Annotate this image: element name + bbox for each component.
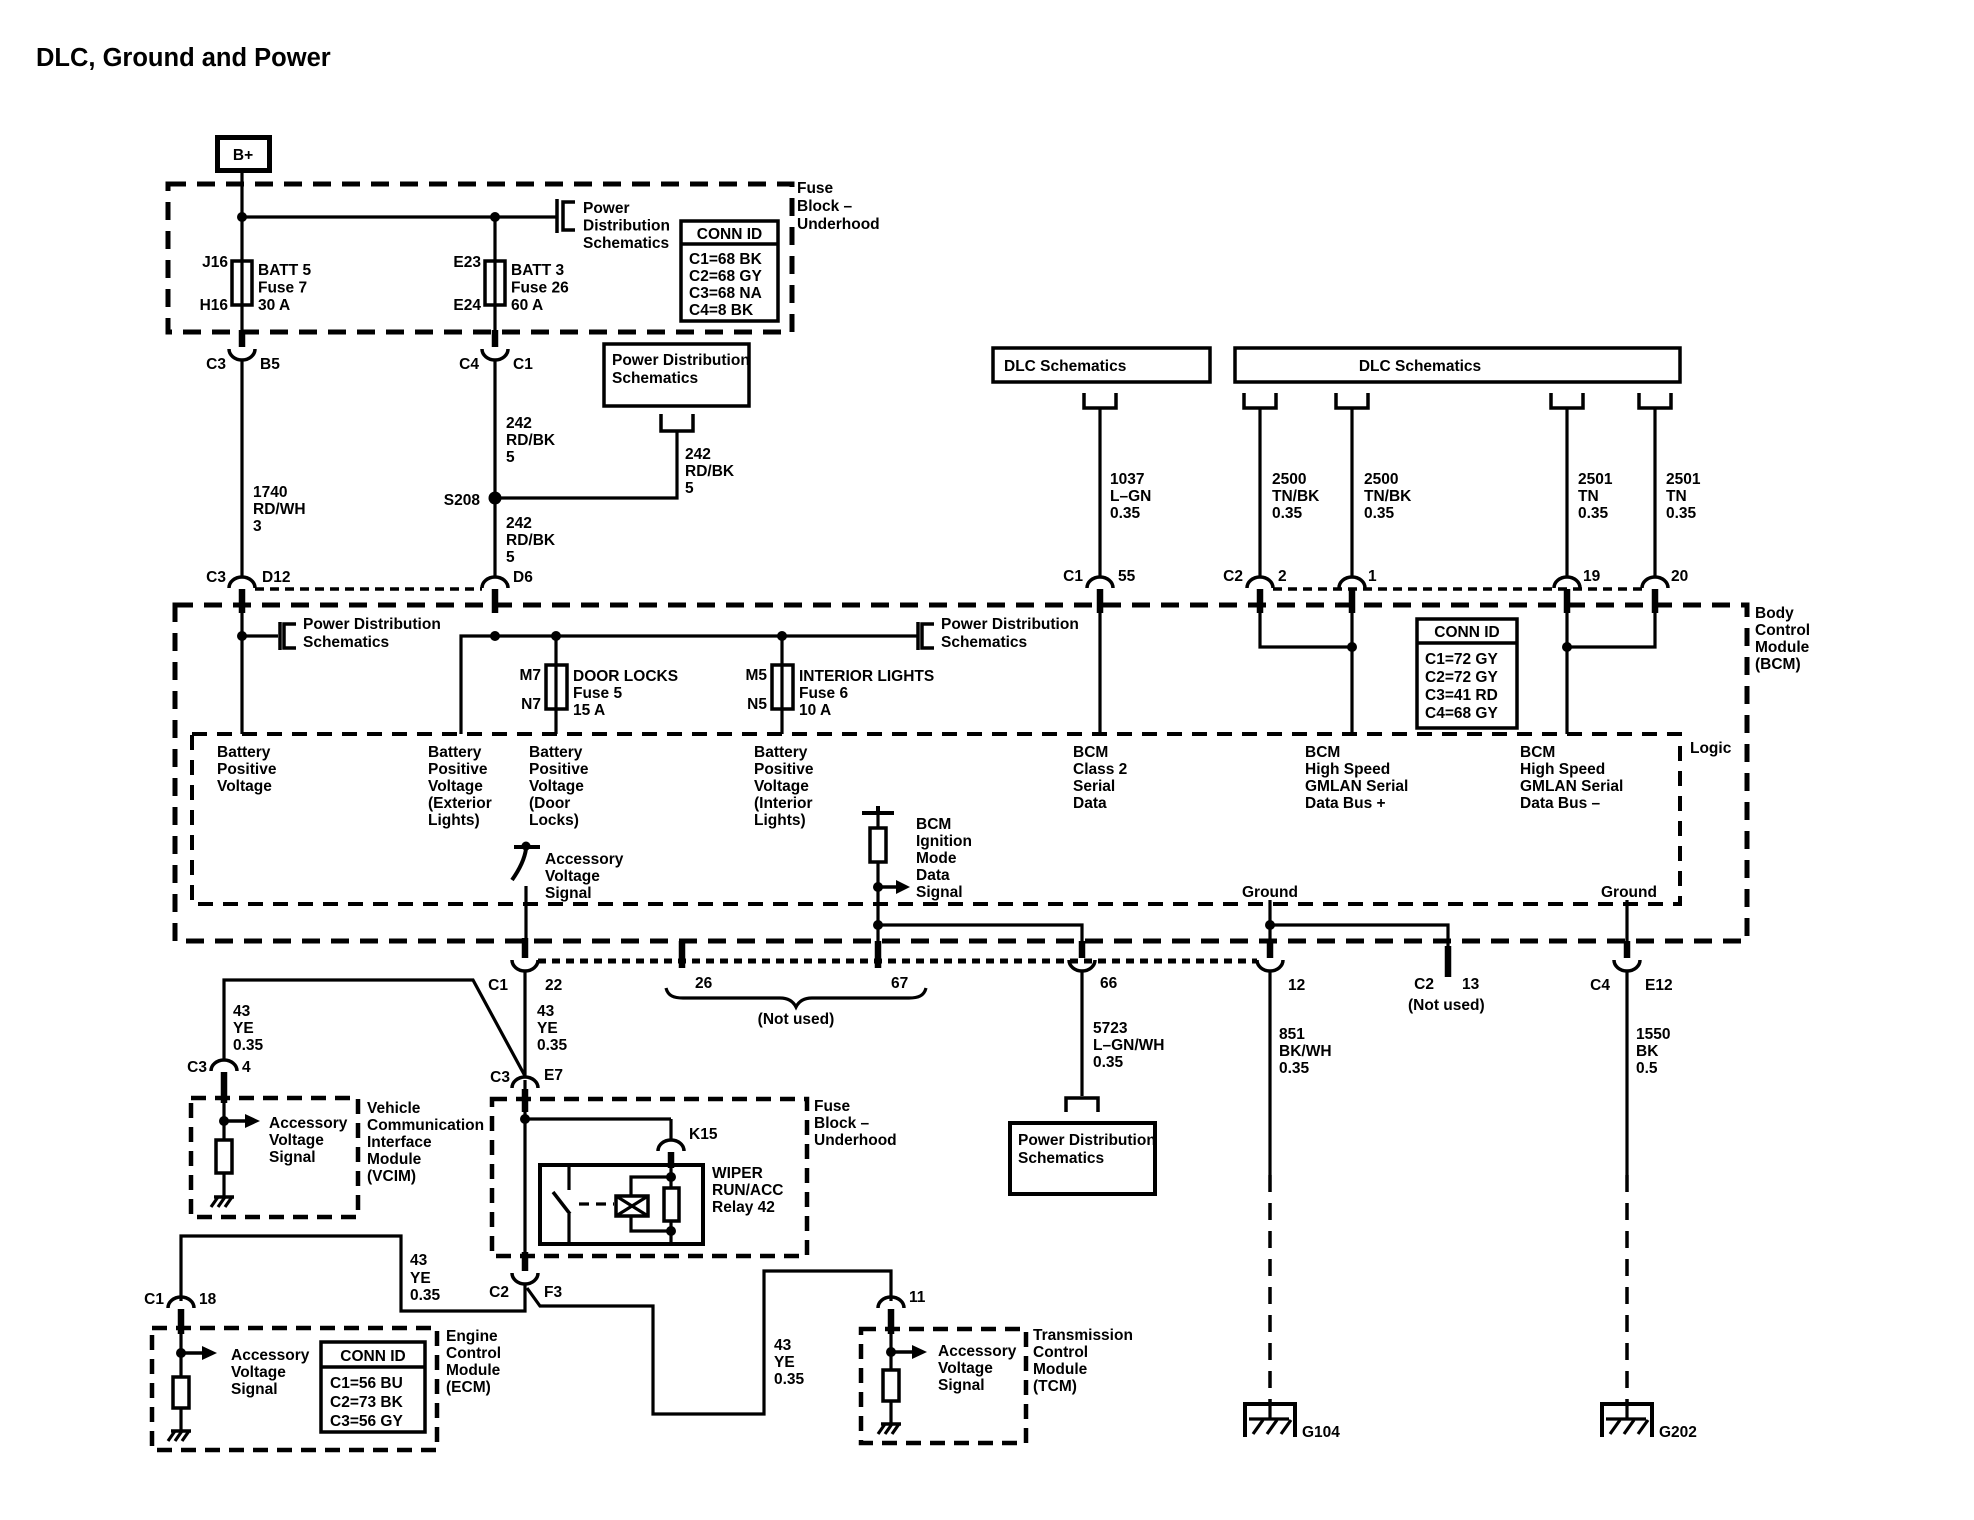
- svg-text:G104: G104: [1302, 1424, 1340, 1441]
- connector pin 20: [1642, 568, 1688, 613]
- wire F3 to ECM: [181, 1236, 525, 1311]
- wire label 2501 TN 0.35 a: [1578, 471, 1613, 522]
- svg-text:66: 66: [1100, 975, 1118, 992]
- wire TCM internal: [889, 1334, 892, 1370]
- node junction VCIM arrow: [219, 1116, 229, 1126]
- svg-text:C1: C1: [1063, 568, 1083, 585]
- wire 43 YE pin 22 to E7: [523, 971, 526, 1076]
- label accessory voltage signal (TCM): [938, 1343, 1017, 1394]
- svg-text:K15: K15: [689, 1126, 718, 1143]
- svg-text:0.35: 0.35: [1364, 505, 1395, 522]
- svg-text:(ECM): (ECM): [446, 1379, 491, 1396]
- bracket to power distribution (bottom): [1066, 1098, 1098, 1112]
- svg-text:Positive: Positive: [529, 761, 589, 778]
- svg-text:GMLAN Serial: GMLAN Serial: [1305, 778, 1408, 795]
- svg-text:242: 242: [506, 415, 532, 432]
- svg-text:C1: C1: [144, 1291, 164, 1308]
- svg-text:Schematics: Schematics: [612, 370, 698, 387]
- wire class 2 serial into logic: [1098, 613, 1101, 734]
- svg-text:43: 43: [774, 1337, 792, 1354]
- wire resistor to pin 67: [876, 862, 879, 944]
- svg-text:L–GN/WH: L–GN/WH: [1093, 1037, 1164, 1054]
- svg-text:Engine: Engine: [446, 1328, 498, 1345]
- wire 43 YE branch to VCIM: [224, 980, 525, 1076]
- svg-text:55: 55: [1118, 568, 1136, 585]
- svg-text:242: 242: [506, 515, 532, 532]
- battery positive terminal B+: [218, 138, 270, 171]
- svg-text:5: 5: [506, 549, 515, 566]
- svg-text:Positive: Positive: [754, 761, 814, 778]
- fuse block underhood label (relay): [814, 1098, 897, 1149]
- fuse BATT 5 Fuse 7: [232, 261, 252, 305]
- svg-text:C1=56 BU: C1=56 BU: [330, 1375, 403, 1392]
- wire 242 RD/BK upper: [493, 360, 496, 577]
- svg-text:Data: Data: [916, 867, 950, 884]
- svg-text:DLC, Ground and Power: DLC, Ground and Power: [36, 44, 331, 72]
- connector pin 1: [1339, 568, 1377, 613]
- svg-text:Control: Control: [1755, 622, 1810, 639]
- wire GMLAN + into logic: [1350, 613, 1353, 734]
- svg-text:Voltage: Voltage: [428, 778, 483, 795]
- connector C3 pin 4: [187, 1059, 251, 1103]
- wire ECM internal: [179, 1334, 182, 1377]
- wire label 43 YE 0.35 (TCM): [774, 1337, 805, 1388]
- connector pin 19: [1554, 568, 1601, 613]
- svg-text:22: 22: [545, 977, 562, 994]
- svg-text:C4: C4: [459, 356, 479, 373]
- bracket below power distribution box: [661, 414, 693, 431]
- svg-text:M5: M5: [745, 667, 767, 684]
- svg-text:INTERIOR LIGHTS: INTERIOR LIGHTS: [799, 668, 934, 685]
- body control module BCM box: [175, 605, 1747, 941]
- svg-text:C3: C3: [187, 1059, 207, 1076]
- brace not used pins 26-67: [666, 988, 926, 1007]
- svg-text:Power Distribution: Power Distribution: [941, 616, 1079, 633]
- svg-text:Voltage: Voltage: [269, 1132, 324, 1149]
- ECM label: [446, 1328, 501, 1396]
- svg-text:C3=68 NA: C3=68 NA: [689, 285, 762, 302]
- svg-text:1550: 1550: [1636, 1026, 1670, 1043]
- svg-text:(Exterior: (Exterior: [428, 795, 492, 812]
- wire to pin 66: [878, 925, 1082, 950]
- svg-text:RD/BK: RD/BK: [506, 432, 556, 449]
- svg-text:RD/WH: RD/WH: [253, 501, 306, 518]
- svg-text:Ground: Ground: [1242, 884, 1298, 901]
- wire 1550 BK dashed: [1625, 1175, 1629, 1403]
- svg-text:Battery: Battery: [754, 744, 808, 761]
- svg-text:Mode: Mode: [916, 850, 957, 867]
- svg-text:(Not used): (Not used): [758, 1011, 835, 1028]
- svg-text:Signal: Signal: [269, 1149, 316, 1166]
- wire 1037 L-GN: [1098, 408, 1101, 577]
- node junction ECM arrow: [176, 1348, 186, 1358]
- bracket under DLC box wire 2501 a: [1551, 393, 1583, 408]
- svg-text:0.35: 0.35: [233, 1037, 264, 1054]
- node junction K15 branch: [520, 1114, 530, 1124]
- svg-text:DLC Schematics: DLC Schematics: [1359, 358, 1481, 375]
- svg-text:(TCM): (TCM): [1033, 1378, 1077, 1395]
- DLC schematics box (right): [1235, 348, 1680, 382]
- connector interface line bottom row: [538, 959, 1257, 964]
- wire 1740 RD/WH: [240, 360, 243, 577]
- svg-text:BCM: BCM: [1073, 744, 1108, 761]
- svg-text:C3: C3: [206, 356, 226, 373]
- svg-text:19: 19: [1583, 568, 1601, 585]
- svg-text:Data Bus –: Data Bus –: [1520, 795, 1600, 812]
- svg-text:C4: C4: [1590, 977, 1610, 994]
- wire GMLAN - into logic: [1565, 613, 1568, 734]
- fuse INTERIOR LIGHTS Fuse 6: [772, 665, 793, 709]
- svg-text:Fuse 5: Fuse 5: [573, 685, 622, 702]
- wire battery positive into logic: [240, 613, 243, 734]
- svg-text:B5: B5: [260, 356, 280, 373]
- svg-text:N7: N7: [521, 696, 541, 713]
- svg-text:Positive: Positive: [217, 761, 277, 778]
- label BCM class 2 serial data: [1073, 744, 1127, 812]
- svg-text:BK: BK: [1636, 1043, 1659, 1060]
- svg-text:C4=8 BK: C4=8 BK: [689, 302, 754, 319]
- connector C1 pin 18: [144, 1291, 216, 1334]
- resistor VCIM: [216, 1140, 232, 1173]
- connector C3 pin D12: [206, 569, 290, 613]
- svg-text:26: 26: [695, 975, 713, 992]
- fuse DOOR LOCKS Fuse 5: [546, 665, 567, 709]
- svg-text:1740: 1740: [253, 484, 287, 501]
- svg-text:5: 5: [685, 480, 694, 497]
- svg-text:Fuse 26: Fuse 26: [511, 280, 569, 297]
- svg-text:C1=68 BK: C1=68 BK: [689, 251, 763, 268]
- wire through fuse 5: [554, 636, 557, 734]
- svg-text:B+: B+: [233, 147, 253, 164]
- wire label 1740 RD/WH 3: [253, 484, 306, 535]
- svg-text:0.5: 0.5: [1636, 1060, 1658, 1077]
- node junction relay bottom: [666, 1226, 676, 1236]
- svg-text:C4=68 GY: C4=68 GY: [1425, 705, 1498, 722]
- wire label 242 RD/BK 5 (branch): [685, 446, 735, 497]
- bracket power distribution schematics (BCM left): [284, 624, 296, 648]
- connector C1 pin 55: [1063, 568, 1135, 613]
- svg-text:Control: Control: [446, 1345, 501, 1362]
- svg-text:Fuse: Fuse: [814, 1098, 851, 1115]
- svg-text:RD/BK: RD/BK: [685, 463, 735, 480]
- wire F3 to TCM: [527, 1271, 891, 1414]
- svg-text:RD/BK: RD/BK: [506, 532, 556, 549]
- svg-text:Interface: Interface: [367, 1134, 432, 1151]
- svg-text:D12: D12: [262, 569, 290, 586]
- svg-text:0.35: 0.35: [1110, 505, 1141, 522]
- svg-text:Power Distribution: Power Distribution: [1018, 1132, 1156, 1149]
- svg-text:YE: YE: [233, 1020, 254, 1037]
- svg-text:0.35: 0.35: [1666, 505, 1697, 522]
- label battery positive voltage interior lights: [754, 744, 814, 829]
- svg-text:E12: E12: [1645, 977, 1673, 994]
- svg-text:Voltage: Voltage: [231, 1364, 286, 1381]
- power distribution schematics box (bottom): [1010, 1123, 1156, 1194]
- chassis ground ECM: [168, 1431, 191, 1441]
- svg-text:0.35: 0.35: [537, 1037, 568, 1054]
- wire ground left: [1268, 900, 1271, 944]
- connector pin 11: [878, 1289, 926, 1334]
- label battery positive voltage: [217, 744, 277, 795]
- node junction at fuse 26 feed: [490, 212, 500, 222]
- wire label 242 RD/BK 5 (lower): [506, 515, 556, 566]
- connector C4 pin C1: [459, 330, 533, 373]
- svg-text:C2: C2: [1223, 568, 1243, 585]
- connector interface line pins 2 to 20: [1273, 587, 1642, 591]
- wire ground right: [1625, 900, 1628, 944]
- label BCM GMLAN data bus +: [1305, 744, 1408, 812]
- arrow accessory voltage signal (TCM): [891, 1345, 927, 1359]
- wire 2500 TN/BK a: [1258, 408, 1261, 577]
- svg-text:YE: YE: [537, 1020, 558, 1037]
- wire accessory voltage to pin 22: [524, 886, 527, 941]
- svg-text:C1: C1: [513, 356, 533, 373]
- relay resistor: [664, 1188, 679, 1221]
- svg-text:Signal: Signal: [916, 884, 963, 901]
- svg-text:Schematics: Schematics: [583, 235, 669, 252]
- svg-text:Schematics: Schematics: [1018, 1150, 1104, 1167]
- svg-text:Battery: Battery: [529, 744, 583, 761]
- svg-text:Lights): Lights): [428, 812, 480, 829]
- svg-text:0.35: 0.35: [1093, 1054, 1124, 1071]
- svg-text:0.35: 0.35: [1279, 1060, 1310, 1077]
- wire label 2500 TN/BK 0.35 a: [1272, 471, 1320, 522]
- resistor BCM ignition mode: [870, 828, 886, 862]
- VCIM box: [191, 1098, 358, 1217]
- arrow accessory voltage signal (ECM): [181, 1346, 217, 1360]
- svg-text:High Speed: High Speed: [1520, 761, 1605, 778]
- svg-text:Power Distribution: Power Distribution: [612, 352, 750, 369]
- svg-text:5: 5: [506, 449, 515, 466]
- svg-text:Signal: Signal: [938, 1377, 985, 1394]
- svg-text:5723: 5723: [1093, 1020, 1128, 1037]
- node junction power distribution tap (left): [237, 631, 247, 641]
- VCIM label: [367, 1100, 484, 1185]
- svg-text:242: 242: [685, 446, 711, 463]
- wire label 43 YE 0.35 (ECM): [410, 1252, 441, 1304]
- svg-text:Control: Control: [1033, 1344, 1088, 1361]
- svg-text:2500: 2500: [1272, 471, 1306, 488]
- svg-text:BCM: BCM: [1520, 744, 1555, 761]
- svg-text:(Not used): (Not used): [1408, 997, 1485, 1014]
- svg-text:High Speed: High Speed: [1305, 761, 1390, 778]
- wire to pin 13: [1270, 925, 1448, 948]
- wire to left bracket: [242, 634, 278, 637]
- label accessory voltage signal (VCIM): [269, 1115, 348, 1166]
- accessory voltage switch symbol: [512, 842, 540, 881]
- svg-text:2501: 2501: [1666, 471, 1701, 488]
- svg-text:Battery: Battery: [428, 744, 482, 761]
- wire bus inside fuse block: [242, 215, 556, 218]
- svg-text:L–GN: L–GN: [1110, 488, 1151, 505]
- svg-text:BCM: BCM: [1305, 744, 1340, 761]
- svg-text:2501: 2501: [1578, 471, 1613, 488]
- bracket power distribution schematics (top): [563, 202, 575, 230]
- TCM box: [861, 1329, 1026, 1443]
- relay resistor wires: [669, 1165, 672, 1244]
- svg-text:M7: M7: [519, 667, 541, 684]
- svg-text:Data Bus +: Data Bus +: [1305, 795, 1386, 812]
- wire B+ to fuse block: [240, 173, 243, 217]
- svg-text:C2=68 GY: C2=68 GY: [689, 268, 762, 285]
- svg-text:Vehicle: Vehicle: [367, 1100, 421, 1117]
- svg-text:Relay 42: Relay 42: [712, 1199, 775, 1216]
- terminal bar to power distribution: [555, 199, 559, 233]
- wire label 1037 L-GN 0.35: [1110, 471, 1151, 522]
- resistor TCM: [883, 1370, 899, 1401]
- svg-text:20: 20: [1671, 568, 1688, 585]
- bracket under DLC box wire 1037: [1084, 393, 1116, 408]
- svg-text:CONN ID: CONN ID: [697, 226, 762, 243]
- svg-text:D6: D6: [513, 569, 533, 586]
- connector pin D6: [482, 569, 533, 613]
- svg-text:S208: S208: [444, 492, 481, 509]
- svg-text:C2: C2: [489, 1284, 509, 1301]
- svg-text:RUN/ACC: RUN/ACC: [712, 1182, 783, 1199]
- svg-text:0.35: 0.35: [1578, 505, 1609, 522]
- svg-text:Schematics: Schematics: [941, 634, 1027, 651]
- wire 851 BK/WH solid: [1268, 971, 1271, 1175]
- svg-text:67: 67: [891, 975, 908, 992]
- svg-text:(Interior: (Interior: [754, 795, 813, 812]
- connector C3 pin B5: [206, 330, 280, 373]
- bracket power distribution schematics (BCM right): [922, 624, 934, 648]
- svg-text:TN: TN: [1578, 488, 1599, 505]
- svg-text:C3: C3: [206, 569, 226, 586]
- fuse block underhood box (top): [168, 184, 792, 332]
- wire through fuse 7: [240, 217, 243, 332]
- wire VCIM internal: [222, 1103, 225, 1140]
- wire label 851 BK/WH 0.35: [1279, 1026, 1332, 1077]
- svg-text:DOOR LOCKS: DOOR LOCKS: [573, 668, 678, 685]
- svg-text:C3: C3: [490, 1069, 510, 1086]
- svg-text:Positive: Positive: [428, 761, 488, 778]
- svg-text:Accessory: Accessory: [938, 1343, 1017, 1360]
- svg-text:J16: J16: [202, 254, 228, 271]
- svg-text:(Door: (Door: [529, 795, 570, 812]
- label accessory voltage signal (ECM): [231, 1347, 310, 1398]
- svg-text:Accessory: Accessory: [269, 1115, 348, 1132]
- label battery positive voltage exterior lights: [428, 744, 492, 829]
- wire D6 bus inside BCM: [461, 636, 918, 734]
- node junction TCM arrow: [886, 1347, 896, 1357]
- svg-text:Module: Module: [446, 1362, 501, 1379]
- svg-text:Ground: Ground: [1601, 884, 1657, 901]
- svg-text:TN/BK: TN/BK: [1364, 488, 1412, 505]
- connector C3 pin E7: [490, 1067, 563, 1112]
- wire GMLAN - pin 20 branch: [1567, 613, 1655, 647]
- svg-text:(VCIM): (VCIM): [367, 1168, 416, 1185]
- node junction fuse 5 tap: [551, 631, 561, 641]
- arrow accessory voltage signal (VCIM): [224, 1114, 260, 1128]
- svg-text:Module: Module: [1755, 639, 1810, 656]
- TCM label: [1033, 1327, 1133, 1395]
- svg-text:18: 18: [199, 1291, 217, 1308]
- CONN ID table (BCM): [1417, 619, 1517, 728]
- svg-text:YE: YE: [774, 1354, 795, 1371]
- svg-text:C1=72 GY: C1=72 GY: [1425, 651, 1498, 668]
- svg-text:15 A: 15 A: [573, 702, 605, 719]
- svg-text:E7: E7: [544, 1067, 563, 1084]
- wire to K15: [525, 1117, 671, 1120]
- label power distribution schematics (top): [583, 200, 670, 252]
- svg-text:Communication: Communication: [367, 1117, 484, 1134]
- bracket under DLC box wire 2500 b: [1336, 393, 1368, 408]
- svg-text:Signal: Signal: [231, 1381, 278, 1398]
- wire 2501 TN b: [1653, 408, 1656, 577]
- connector pin 12: [1257, 941, 1305, 994]
- svg-text:Voltage: Voltage: [529, 778, 584, 795]
- fuse 26 value label: [511, 262, 569, 314]
- svg-text:TN/BK: TN/BK: [1272, 488, 1320, 505]
- svg-text:CONN ID: CONN ID: [340, 1348, 405, 1365]
- wire resistor to ground VCIM: [222, 1173, 225, 1197]
- svg-text:Module: Module: [367, 1151, 422, 1168]
- connector C2 pin F3: [489, 1252, 562, 1301]
- svg-text:F3: F3: [544, 1284, 562, 1301]
- wire 2501 TN a: [1565, 408, 1568, 577]
- svg-text:Ignition: Ignition: [916, 833, 972, 850]
- relay coil wiring loop: [631, 1177, 671, 1196]
- svg-text:Voltage: Voltage: [754, 778, 809, 795]
- label BCM ignition mode data signal: [916, 816, 972, 901]
- svg-text:43: 43: [537, 1003, 555, 1020]
- fuse block underhood label: [797, 180, 880, 233]
- node junction pin 13 branch: [1265, 920, 1275, 930]
- relay switch contact: [553, 1165, 570, 1244]
- svg-text:Logic: Logic: [1690, 740, 1732, 757]
- label accessory voltage signal (BCM): [545, 851, 624, 902]
- svg-text:Locks): Locks): [529, 812, 579, 829]
- fuse 7 value label: [258, 262, 311, 314]
- svg-text:N5: N5: [747, 696, 767, 713]
- svg-text:4: 4: [242, 1059, 251, 1076]
- svg-text:30 A: 30 A: [258, 297, 290, 314]
- svg-text:Signal: Signal: [545, 885, 592, 902]
- svg-text:Voltage: Voltage: [545, 868, 600, 885]
- svg-text:H16: H16: [200, 297, 229, 314]
- wire 5723 L-GN/WH: [1080, 971, 1083, 1096]
- svg-text:Battery: Battery: [217, 744, 271, 761]
- node junction relay top: [666, 1172, 676, 1182]
- svg-text:BATT 3: BATT 3: [511, 262, 564, 279]
- svg-text:2: 2: [1278, 568, 1287, 585]
- svg-text:BATT 5: BATT 5: [258, 262, 311, 279]
- bracket under DLC box wire 2500 a: [1244, 393, 1276, 408]
- logic box: [192, 734, 1680, 904]
- svg-text:0.35: 0.35: [1272, 505, 1303, 522]
- ground G104: [1243, 1404, 1340, 1441]
- DLC schematics box (left): [993, 348, 1210, 382]
- fuse block underhood box (relay): [492, 1099, 807, 1256]
- svg-text:Data: Data: [1073, 795, 1107, 812]
- fuse 5 value label: [573, 668, 678, 719]
- pin stub 67 (not used): [878, 941, 908, 992]
- BCM ignition mode terminal bar: [862, 806, 894, 813]
- wire 2500 TN/BK b: [1350, 408, 1353, 577]
- wire label 5723 L-GN/WH 0.35: [1093, 1020, 1164, 1071]
- ECM box: [152, 1328, 437, 1450]
- svg-text:43: 43: [410, 1252, 428, 1269]
- svg-text:Transmission: Transmission: [1033, 1327, 1133, 1344]
- svg-text:Block –: Block –: [814, 1115, 870, 1132]
- ground G202: [1600, 1404, 1697, 1441]
- svg-text:Body: Body: [1755, 605, 1794, 622]
- node junction D6: [490, 631, 500, 641]
- svg-text:Class 2: Class 2: [1073, 761, 1127, 778]
- svg-text:WIPER: WIPER: [712, 1165, 763, 1182]
- label battery positive voltage door locks: [529, 744, 589, 829]
